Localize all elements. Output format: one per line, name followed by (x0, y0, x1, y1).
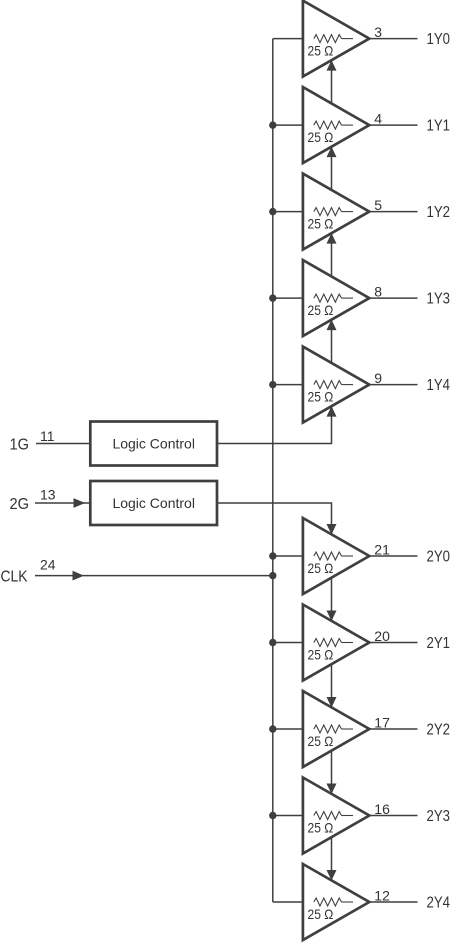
wire: output line of buffer 1Y4 (369, 384, 417, 386)
resistor 25 ohm inside buffer 1Y0 (314, 35, 342, 43)
svg-text:2Y3: 2Y3 (427, 808, 451, 825)
enable arrowhead into buffer 1Y2 (pointing up) (327, 233, 337, 244)
svg-text:25 Ω: 25 Ω (308, 129, 334, 145)
wire: output line of buffer 2Y1 (369, 642, 417, 644)
wire: output line of buffer 1Y3 (369, 297, 417, 299)
junction dot: bus to buffer 2Y1 (269, 639, 276, 646)
resistor 25 ohm inside buffer 1Y1 (314, 121, 342, 129)
wire: resistor to apex inside buffer 1Y4 (342, 384, 354, 386)
wire: output line of buffer 2Y2 (369, 728, 417, 730)
wire: output line of buffer 2Y3 (369, 815, 417, 817)
wire: output line of buffer 2Y4 (369, 901, 417, 903)
enable arrowhead into buffer 1Y0 (pointing up) (327, 60, 337, 71)
wire: resistor to apex inside buffer 2Y4 (342, 901, 354, 903)
buffer amplifier 1Y2 (303, 174, 369, 250)
wire: input stub from bus to buffer 2Y2 (273, 728, 314, 730)
svg-text:9: 9 (374, 370, 382, 386)
buffer amplifier 1Y4 (303, 347, 369, 423)
svg-text:1Y0: 1Y0 (427, 31, 451, 48)
resistor 25 ohm inside buffer 1Y4 (314, 381, 342, 389)
junction dot: bus to buffer 1Y2 (269, 208, 276, 215)
enable arrowhead into buffer 2Y2 (pointing down) (327, 697, 337, 708)
enable arrowhead into buffer 1Y4 (pointing up) (327, 406, 337, 417)
wire: input stub from bus to buffer 1Y2 (273, 211, 314, 213)
junction dot: bus to buffer 1Y4 (269, 381, 276, 388)
svg-text:1Y3: 1Y3 (427, 291, 451, 308)
svg-text:3: 3 (374, 24, 382, 40)
resistor 25 ohm inside buffer 1Y3 (314, 294, 342, 302)
resistor 25 ohm inside buffer 2Y4 (314, 898, 342, 906)
enable arrowhead into buffer 1Y3 (pointing up) (327, 320, 337, 331)
arrowhead on CLK input line (73, 571, 85, 581)
wire: output line of buffer 1Y0 (369, 38, 417, 40)
svg-text:1Y2: 1Y2 (427, 204, 451, 221)
junction dot: bus to buffer 1Y3 (269, 294, 276, 301)
buffer amplifier 1Y0 (303, 1, 369, 77)
svg-text:Logic Control: Logic Control (112, 436, 195, 452)
wire: input stub from bus to buffer 2Y0 (273, 555, 314, 557)
junction dot: bus to buffer 2Y2 (269, 725, 276, 732)
wire: resistor to apex inside buffer 1Y1 (342, 124, 354, 126)
svg-text:25 Ω: 25 Ω (308, 733, 334, 749)
resistor 25 ohm inside buffer 2Y3 (314, 812, 342, 820)
enable arrowhead into buffer 1Y1 (pointing up) (327, 147, 337, 158)
svg-text:25 Ω: 25 Ω (308, 216, 334, 232)
svg-text:25 Ω: 25 Ω (308, 43, 334, 59)
junction dot: bus to buffer 2Y0 (269, 552, 276, 559)
svg-text:20: 20 (374, 628, 390, 644)
junction dot: bus to buffer 2Y3 (269, 812, 276, 819)
wire: output line of buffer 2Y0 (369, 555, 417, 557)
svg-text:1G: 1G (10, 437, 30, 454)
arrowhead on 2G input line (74, 498, 86, 508)
wire: resistor to apex inside buffer 1Y2 (342, 211, 354, 213)
wire: resistor to apex inside buffer 2Y0 (342, 555, 354, 557)
buffer amplifier 2Y0 (303, 518, 369, 594)
logic control block U1 (1G) (90, 422, 217, 466)
wire: 1G input line to Logic Control U1 (36, 443, 90, 445)
enable arrowhead into buffer 2Y1 (pointing down) (327, 611, 337, 622)
buffer amplifier 2Y1 (303, 605, 369, 681)
svg-text:25 Ω: 25 Ω (308, 906, 334, 922)
wire: enable line from Logic Control U2 down to 2Y buffers (217, 503, 332, 880)
wire: input stub from bus to buffer 1Y4 (273, 384, 314, 386)
wire: input stub from bus to buffer 1Y0 (273, 38, 314, 40)
svg-text:16: 16 (374, 801, 390, 817)
wire: output line of buffer 1Y2 (369, 211, 417, 213)
wire: 2G input line to Logic Control U2 (35, 502, 90, 504)
wire: input stub from bus to buffer 1Y3 (273, 297, 314, 299)
junction dot: bus to buffer 1Y1 (269, 121, 276, 128)
svg-text:11: 11 (40, 428, 55, 444)
enable arrowhead into buffer 2Y4 (pointing down) (327, 870, 337, 881)
svg-text:4: 4 (374, 111, 382, 127)
svg-text:12: 12 (374, 888, 390, 904)
svg-text:2Y1: 2Y1 (427, 635, 451, 652)
svg-text:8: 8 (374, 284, 382, 300)
wire: input stub from bus to buffer 2Y3 (273, 815, 314, 817)
wire: resistor to apex inside buffer 2Y2 (342, 728, 354, 730)
wire: input stub from bus to buffer 1Y1 (273, 124, 314, 126)
buffer amplifier 1Y1 (303, 87, 369, 163)
wire: resistor to apex inside buffer 1Y3 (342, 297, 354, 299)
wire: input stub from bus to buffer 2Y4 (273, 901, 314, 903)
buffer amplifier 2Y4 (303, 864, 369, 940)
svg-text:25 Ω: 25 Ω (308, 389, 334, 405)
enable arrowhead into buffer 2Y3 (pointing down) (327, 784, 337, 795)
buffer amplifier 2Y3 (303, 778, 369, 854)
svg-text:25 Ω: 25 Ω (308, 820, 334, 836)
svg-text:2Y0: 2Y0 (427, 549, 451, 566)
svg-text:2G: 2G (10, 496, 30, 513)
svg-text:1Y1: 1Y1 (427, 118, 451, 135)
resistor 25 ohm inside buffer 2Y0 (314, 552, 342, 560)
svg-text:2Y2: 2Y2 (427, 722, 451, 739)
svg-text:17: 17 (374, 715, 390, 731)
svg-text:25 Ω: 25 Ω (308, 560, 334, 576)
buffer amplifier 2Y2 (303, 691, 369, 767)
svg-text:25 Ω: 25 Ω (308, 647, 334, 663)
logic control block U2 (2G) (90, 481, 217, 525)
wire: vertical clock distribution bus (272, 39, 274, 902)
resistor 25 ohm inside buffer 2Y1 (314, 639, 342, 647)
wire: CLK input line from CLK pin to clock bus (35, 575, 273, 577)
resistor 25 ohm inside buffer 2Y2 (314, 725, 342, 733)
buffer amplifier 1Y3 (303, 260, 369, 336)
svg-text:CLK: CLK (1, 569, 28, 586)
svg-text:Logic Control: Logic Control (112, 495, 195, 511)
enable arrowhead into buffer 2Y0 (pointing down) (327, 524, 337, 535)
svg-text:24: 24 (40, 557, 56, 573)
wire: resistor to apex inside buffer 2Y3 (342, 815, 354, 817)
wire: resistor to apex inside buffer 2Y1 (342, 642, 354, 644)
wire: resistor to apex inside buffer 1Y0 (342, 38, 354, 40)
svg-text:2Y4: 2Y4 (427, 895, 451, 912)
svg-text:25 Ω: 25 Ω (308, 302, 334, 318)
wire: enable line from Logic Control U1 up to 1Y buffers (217, 61, 332, 444)
junction dot: CLK to bus (269, 572, 276, 579)
svg-text:5: 5 (374, 197, 382, 213)
svg-text:13: 13 (40, 487, 56, 503)
wire: input stub from bus to buffer 2Y1 (273, 642, 314, 644)
resistor 25 ohm inside buffer 1Y2 (314, 208, 342, 216)
svg-text:21: 21 (374, 542, 390, 558)
svg-text:1Y4: 1Y4 (427, 377, 451, 394)
wire: output line of buffer 1Y1 (369, 124, 417, 126)
